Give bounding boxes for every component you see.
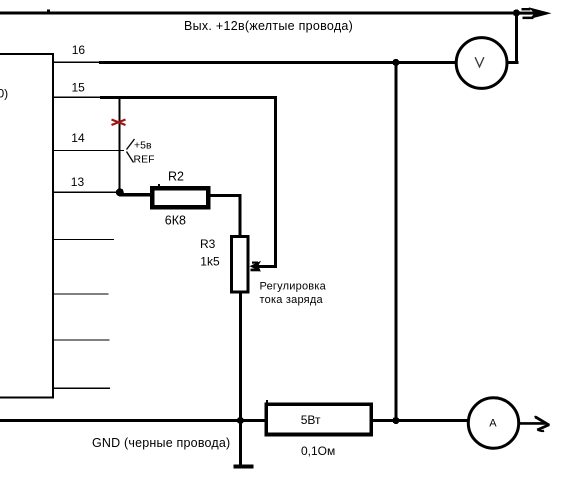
svg-text:0): 0) — [0, 87, 8, 101]
artifact tick on top rail — [47, 9, 50, 11]
voltmeter V1 circle — [456, 38, 507, 89]
wire: voltmeter right lead — [505, 61, 519, 64]
voltmeter letter V — [475, 57, 484, 67]
wire: horizontal segment to R3 wiper — [258, 265, 277, 268]
wire: GND rail left segment — [0, 419, 266, 422]
svg-text:A: A — [489, 418, 497, 430]
unlabeled pin stub c — [53, 339, 110, 340]
unlabeled pin stub d — [53, 387, 110, 388]
unlabeled pin stub b — [53, 293, 109, 294]
svg-text:R2: R2 — [168, 170, 184, 184]
arrow: +12V output arrow — [518, 7, 552, 19]
wire: pin 16 thick rail to voltmeter — [99, 61, 456, 64]
wire: R3 bottom to GND rail — [239, 292, 242, 420]
svg-text:+5в: +5в — [134, 140, 152, 152]
svg-text:15: 15 — [72, 80, 86, 94]
artifact tick at R2 corner — [158, 184, 160, 187]
node: pin 13 junction dot — [116, 188, 124, 196]
shunt resistor body 5Вт — [266, 404, 371, 434]
wire: ground stub below junction — [239, 420, 242, 465]
svg-text:Регулировка: Регулировка — [260, 280, 327, 292]
node: junction dot at shunt output — [392, 417, 399, 424]
pin 13 stub — [53, 191, 119, 192]
svg-text:REF: REF — [134, 153, 155, 165]
wire: pin 15 thick lead — [100, 96, 277, 99]
svg-text:R3: R3 — [200, 237, 216, 251]
callout strokes at pin 14 node — [127, 139, 135, 163]
arrow: wiper arrowhead into R3 — [250, 261, 262, 272]
node: top-right junction dot — [513, 9, 520, 16]
svg-text:0,1Ом: 0,1Ом — [301, 444, 335, 458]
unlabeled pin stub a — [53, 239, 114, 240]
artifact tick at shunt corner — [266, 400, 268, 405]
svg-text:13: 13 — [71, 175, 85, 189]
node: junction dot on pin16 rail — [392, 59, 399, 66]
wire: R2 to R3 — [210, 194, 242, 197]
svg-text:Вых. +12в(желтые провода): Вых. +12в(желтые провода) — [184, 19, 353, 33]
wire: vertical down into R3 top — [239, 194, 242, 237]
wire: main vertical rail down to shunt output — [395, 63, 398, 421]
resistor R2 body — [152, 188, 208, 207]
wire: +12V top rail — [0, 12, 518, 15]
wire: vertical from top junction to voltmeter — [515, 13, 518, 62]
ammeter A1 circle — [468, 398, 518, 448]
arrow: ammeter output arrow — [519, 416, 549, 431]
wire: shunt to ammeter — [373, 419, 469, 422]
svg-text:16: 16 — [72, 43, 86, 57]
svg-text:6К8: 6К8 — [165, 214, 186, 228]
wire: thin vertical from pin15 node down to pin13 node — [119, 97, 121, 192]
pin 15 stub — [53, 96, 101, 97]
svg-text:тока заряда: тока заряда — [260, 294, 324, 306]
ground bar — [234, 465, 254, 469]
wire: vertical segment to R3 wiper — [274, 96, 277, 267]
mark: red X (cut) — [112, 120, 126, 126]
svg-text:5Вт: 5Вт — [301, 413, 321, 427]
IC U1 (TL494) body — [0, 54, 53, 398]
svg-text:GND (черные провода): GND (черные провода) — [92, 436, 230, 450]
svg-text:14: 14 — [71, 131, 85, 145]
pin 14 stub — [53, 150, 124, 151]
node: junction dot on GND rail — [237, 417, 244, 424]
pin 16 stub — [53, 61, 99, 62]
svg-text:1k5: 1k5 — [200, 255, 220, 269]
resistor R3 body (pot) — [232, 237, 248, 293]
wire: pin13 node to R2 — [119, 193, 152, 196]
